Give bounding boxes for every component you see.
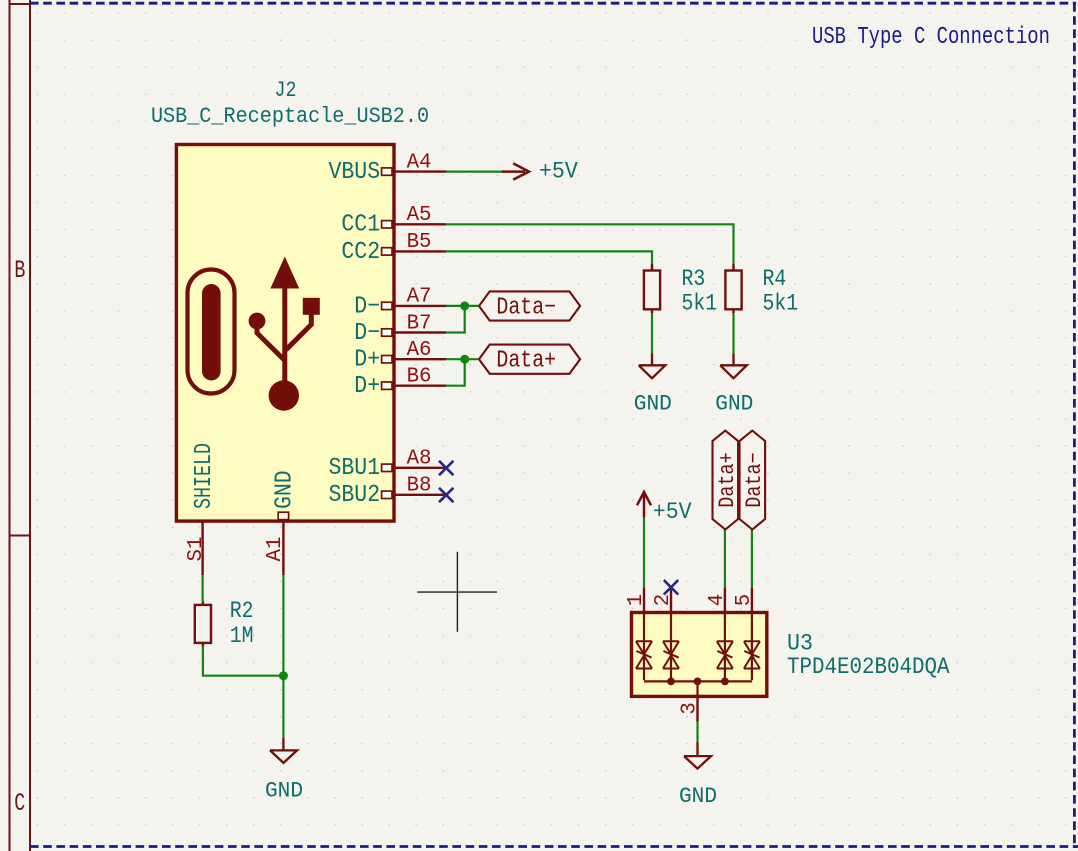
wire VBUS to +5V bbox=[446, 171, 502, 173]
svg-text:A4: A4 bbox=[407, 150, 432, 174]
power +5V (VBUS) bbox=[502, 159, 578, 185]
svg-text:B: B bbox=[14, 256, 25, 285]
no-connect SBU1 bbox=[439, 461, 453, 475]
wire CC2 to R3 bbox=[446, 251, 652, 264]
global label Data+ (vertical) bbox=[713, 431, 741, 530]
svg-text:+5V: +5V bbox=[653, 499, 692, 525]
ground under U3 bbox=[679, 742, 717, 809]
connector J2 USB_C_Receptacle_USB2.0 body bbox=[176, 145, 394, 522]
internal ground bus of U3 bbox=[644, 681, 752, 696]
svg-text:SBU2: SBU2 bbox=[329, 482, 381, 509]
resistor R4 5k1 bbox=[725, 264, 798, 317]
svg-text:A5: A5 bbox=[407, 203, 432, 227]
resistor R3 5k1 bbox=[644, 264, 717, 317]
svg-text:3: 3 bbox=[677, 702, 701, 714]
wire GND A1 down bbox=[282, 575, 284, 738]
svg-text:GND: GND bbox=[272, 470, 299, 509]
global label Data- (horizontal) bbox=[479, 291, 580, 321]
svg-text:D+: D+ bbox=[354, 347, 380, 374]
pin 3 of U3 bbox=[677, 696, 701, 721]
svg-text:A8: A8 bbox=[407, 447, 432, 471]
USB-C receptacle icon (capsule) bbox=[188, 270, 235, 394]
svg-text:SBU1: SBU1 bbox=[329, 455, 381, 482]
svg-text:A7: A7 bbox=[407, 285, 432, 309]
wire pin3 to GND bbox=[696, 722, 698, 743]
svg-text:VBUS: VBUS bbox=[329, 159, 381, 186]
pin GND (A1) of J2 bbox=[263, 470, 299, 575]
svg-text:5k1: 5k1 bbox=[763, 290, 799, 316]
svg-text:B6: B6 bbox=[407, 365, 432, 389]
pin D+ (A6) of J2 bbox=[354, 338, 446, 374]
svg-text:U3: U3 bbox=[787, 631, 813, 657]
svg-text:D+: D+ bbox=[354, 373, 380, 400]
svg-text:1: 1 bbox=[624, 594, 648, 606]
svg-text:B5: B5 bbox=[407, 230, 432, 254]
USB trident icon bbox=[249, 257, 320, 411]
svg-text:5k1: 5k1 bbox=[682, 290, 718, 316]
pin 2 of U3 bbox=[651, 587, 675, 612]
pin SBU2 (B8) of J2 bbox=[329, 474, 447, 510]
TVS diode pair 4 in U3 bbox=[744, 614, 760, 680]
pin D− (A7) of J2 bbox=[354, 285, 446, 321]
svg-text:C: C bbox=[14, 789, 25, 818]
no-connect SBU2 bbox=[439, 488, 453, 502]
svg-text:R2: R2 bbox=[230, 598, 254, 624]
svg-text:Data+: Data+ bbox=[715, 452, 740, 508]
TVS diode pair 2 in U3 bbox=[663, 614, 679, 680]
pin 1 of U3 bbox=[624, 587, 648, 612]
junction dots on U3 bus bbox=[667, 678, 729, 686]
wire R2 to junction bbox=[203, 647, 284, 676]
svg-text:J2: J2 bbox=[275, 77, 297, 103]
pin SHIELD (S1) of J2 bbox=[184, 443, 218, 575]
svg-text:D−: D− bbox=[354, 293, 380, 320]
svg-text:A6: A6 bbox=[407, 338, 432, 362]
svg-text:4: 4 bbox=[705, 594, 729, 606]
svg-text:S1: S1 bbox=[184, 537, 208, 562]
pin CC1 (A5) of J2 bbox=[341, 203, 446, 239]
wire CC1 to R4 bbox=[446, 224, 734, 264]
pin 5 of U3 bbox=[732, 587, 756, 612]
svg-text:Data−: Data− bbox=[496, 295, 556, 322]
pin D+ (B6) of J2 bbox=[354, 365, 446, 401]
junction node shield/gnd bbox=[279, 671, 288, 680]
IC U3 TPD4E02B04DQA body bbox=[632, 613, 767, 697]
junction node D- bbox=[460, 301, 469, 310]
svg-text:D−: D− bbox=[354, 320, 380, 347]
pin VBUS (A4) of J2 bbox=[329, 150, 447, 186]
pin D− (B7) of J2 bbox=[354, 311, 446, 347]
wire pin5 to Data- label bbox=[751, 529, 753, 587]
svg-text:GND: GND bbox=[715, 391, 753, 417]
junction node D+ bbox=[460, 355, 469, 364]
svg-text:GND: GND bbox=[265, 777, 303, 803]
pin 4 of U3 bbox=[705, 587, 729, 612]
power +5V (U3) bbox=[637, 492, 692, 525]
svg-text:R4: R4 bbox=[763, 266, 787, 292]
svg-text:GND: GND bbox=[634, 391, 672, 417]
wire D- B7 bbox=[446, 306, 465, 333]
no-connect pin 2 U3 bbox=[664, 580, 678, 594]
wire pin4 to Data+ label bbox=[724, 529, 726, 587]
svg-text:A1: A1 bbox=[263, 537, 287, 562]
svg-text:B8: B8 bbox=[407, 474, 432, 498]
svg-text:GND: GND bbox=[679, 783, 717, 809]
wire D+ B6 bbox=[446, 359, 465, 386]
svg-text:+5V: +5V bbox=[539, 159, 578, 185]
svg-text:CC1: CC1 bbox=[341, 212, 380, 239]
wire R3 to GND bbox=[651, 313, 653, 353]
ground under R4 bbox=[715, 353, 753, 416]
global label Data+ (horizontal) bbox=[479, 345, 580, 375]
svg-text:B7: B7 bbox=[407, 311, 432, 335]
svg-text:SHIELD: SHIELD bbox=[191, 443, 218, 509]
svg-text:5: 5 bbox=[732, 594, 756, 606]
wire D- A7 to label bbox=[446, 305, 478, 307]
svg-text:2: 2 bbox=[651, 594, 675, 606]
svg-text:Data+: Data+ bbox=[496, 348, 556, 375]
TVS diode pair 1 in U3 bbox=[636, 614, 652, 680]
svg-text:TPD4E02B04DQA: TPD4E02B04DQA bbox=[787, 654, 950, 680]
cursor crosshair bbox=[417, 552, 497, 632]
svg-text:CC2: CC2 bbox=[341, 239, 380, 266]
pin SBU1 (A8) of J2 bbox=[329, 447, 447, 483]
resistor R2 1M bbox=[195, 598, 254, 649]
ground under J2 bbox=[265, 738, 303, 804]
wire R4 to GND bbox=[732, 313, 734, 353]
global label Data- (vertical) bbox=[740, 431, 768, 530]
wire D+ A6 to label bbox=[446, 358, 478, 360]
wire pin1 to +5V bbox=[643, 517, 645, 587]
ground under R3 bbox=[634, 353, 672, 416]
svg-text:Data−: Data− bbox=[742, 452, 767, 508]
svg-text:USB_C_Receptacle_USB2.0: USB_C_Receptacle_USB2.0 bbox=[151, 103, 429, 129]
svg-text:1M: 1M bbox=[230, 623, 254, 649]
TVS diode pair 3 in U3 bbox=[717, 614, 733, 680]
pin CC2 (B5) of J2 bbox=[341, 230, 446, 266]
svg-text:USB Type C Connection: USB Type C Connection bbox=[812, 24, 1050, 51]
svg-text:R3: R3 bbox=[682, 266, 706, 292]
wire SHIELD to R2 bbox=[202, 575, 204, 601]
